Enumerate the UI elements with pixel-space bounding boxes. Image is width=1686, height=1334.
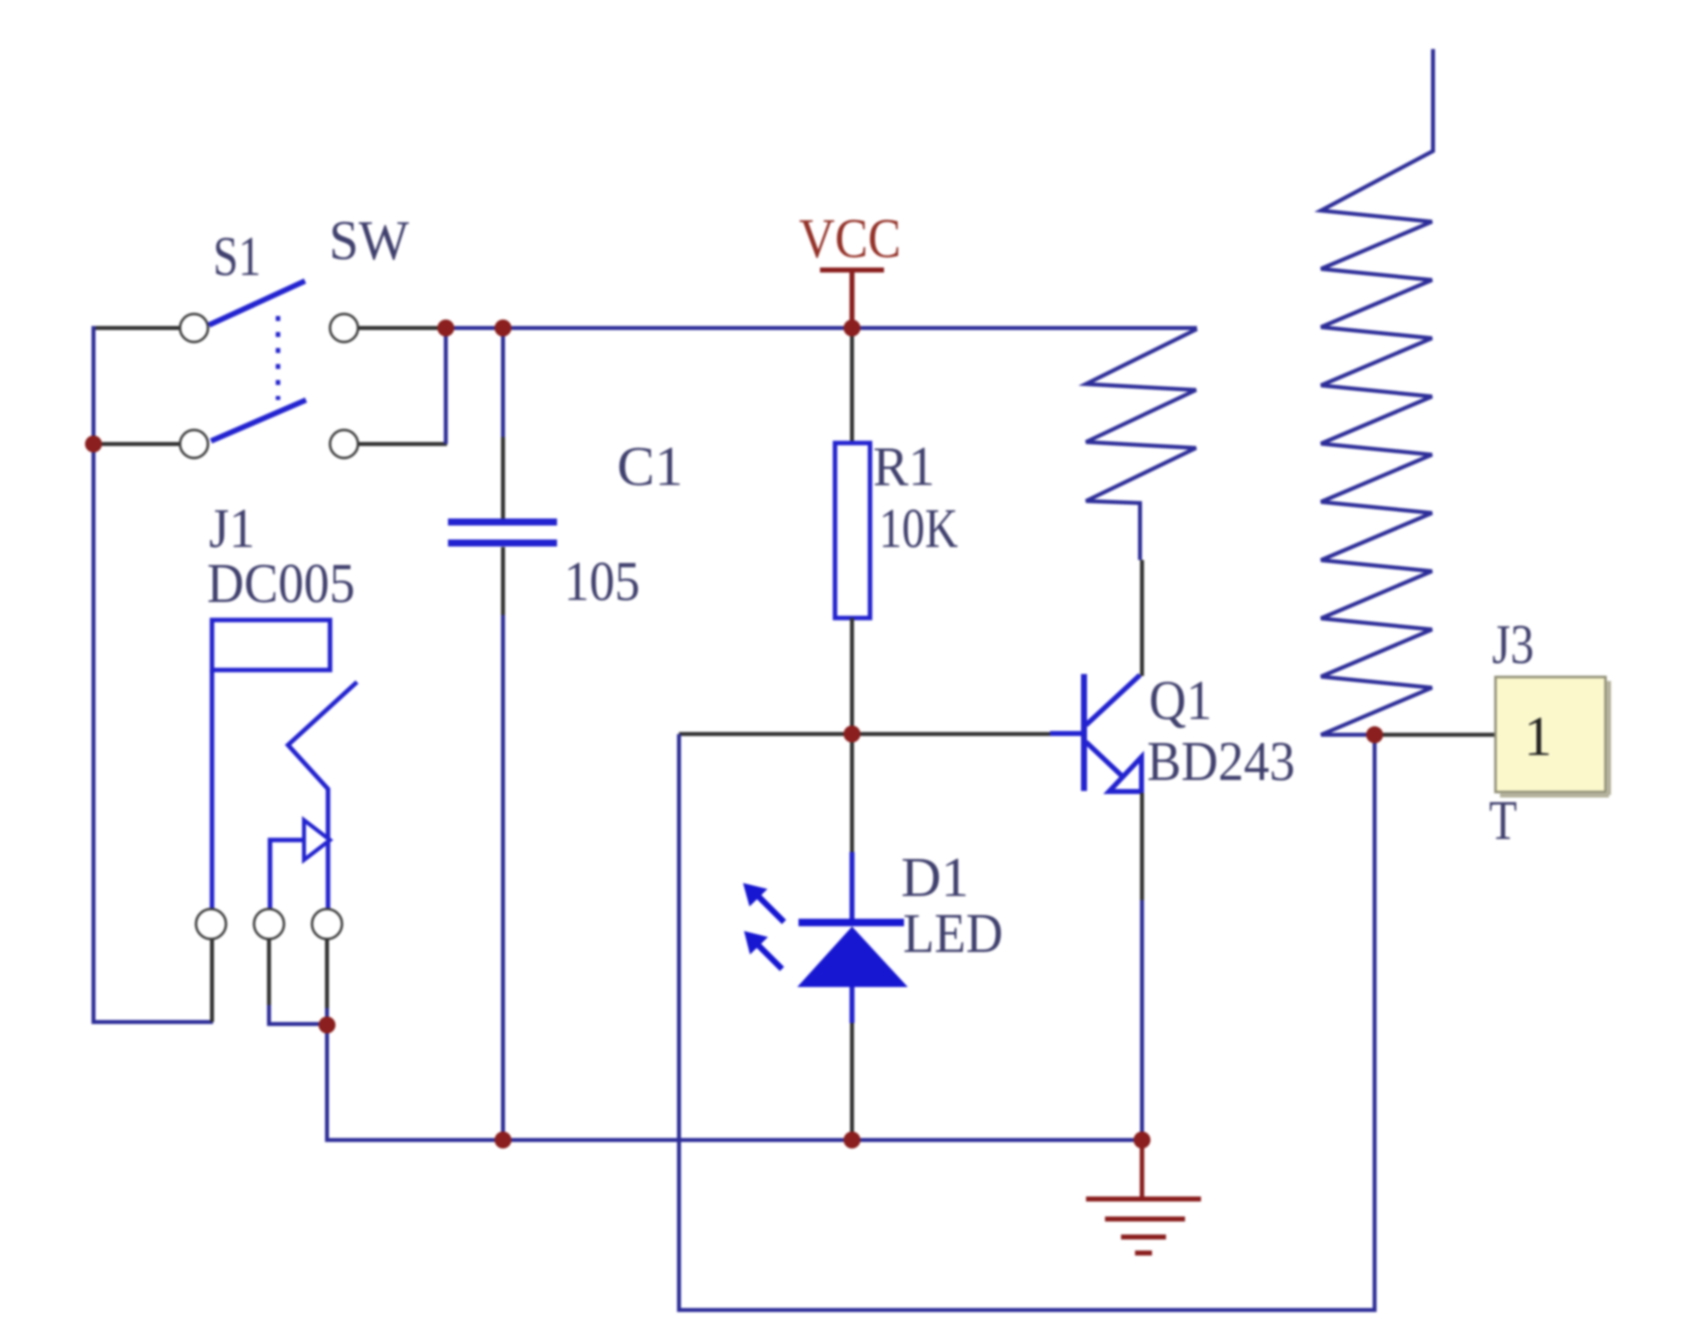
label C1 xyxy=(617,436,683,498)
wire: base node to LED xyxy=(850,734,854,919)
resistor R1 xyxy=(835,443,870,618)
svg-text:10K: 10K xyxy=(879,498,958,560)
wire: right vertical joining S1 contacts to rail xyxy=(444,328,448,444)
svg-text:R1: R1 xyxy=(873,436,935,498)
svg-text:LED: LED xyxy=(903,903,1003,965)
wire: S1 top-right lead to rail xyxy=(358,326,446,330)
switch S1 xyxy=(180,281,358,458)
wire: J1 middle pin xyxy=(269,939,327,1024)
svg-text:D1: D1 xyxy=(901,847,969,909)
connector J1 DC005 body xyxy=(212,620,357,909)
capacitor C1 xyxy=(448,522,557,543)
resistor R2 zigzag xyxy=(1086,329,1197,560)
svg-text:S1: S1 xyxy=(213,226,261,288)
wire: feedback box path xyxy=(679,734,1375,1310)
svg-text:DC005: DC005 xyxy=(207,553,355,615)
svg-text:105: 105 xyxy=(564,551,640,613)
wire: S1 bottom-right lead xyxy=(358,442,447,446)
wire: VCC to R1 xyxy=(850,328,854,443)
svg-text:1: 1 xyxy=(1524,706,1552,768)
wire: S1 bottom-left lead xyxy=(94,442,181,446)
wire: J1 right pin xyxy=(325,939,329,1025)
svg-text:J1: J1 xyxy=(209,498,255,560)
label S1 xyxy=(213,226,261,288)
resistor R3 heater zigzag xyxy=(1321,49,1433,735)
label BD243 xyxy=(1147,731,1295,793)
svg-text:VCC: VCC xyxy=(799,208,901,270)
wire: R1 bottom to base node xyxy=(850,618,854,734)
wire: S1 top-left lead xyxy=(94,326,181,330)
svg-text:SW: SW xyxy=(329,210,409,272)
svg-text:T: T xyxy=(1489,790,1517,852)
transistor Q1 BD243 xyxy=(1084,674,1142,792)
svg-text:Q1: Q1 xyxy=(1149,670,1212,732)
wire: heater bottom to J3 xyxy=(1375,733,1495,737)
wire: C1 bottom xyxy=(501,547,505,1140)
wire: DC jack left pin black xyxy=(210,938,214,1022)
label Q1 xyxy=(1149,670,1212,732)
wire: bottom ground rail xyxy=(327,1025,1142,1140)
node: junction dots xyxy=(85,320,1383,1149)
pins J1: three pads xyxy=(196,909,342,939)
wire: Q1 emitter down xyxy=(1140,793,1144,1140)
label 105 xyxy=(564,551,640,613)
ground xyxy=(1086,1140,1201,1253)
wire: R2 to Q1 collector xyxy=(1140,560,1144,676)
label R1 xyxy=(873,436,935,498)
wire: C1 top xyxy=(501,328,505,519)
label D1 xyxy=(901,847,969,909)
connector J3 port xyxy=(1496,677,1610,796)
wire: left net down to DC jack sleeve xyxy=(94,444,214,1022)
svg-text:J3: J3 xyxy=(1492,614,1534,676)
svg-text:BD243: BD243 xyxy=(1147,731,1295,793)
power VCC xyxy=(799,208,901,328)
label 10K xyxy=(879,498,958,560)
wire: top rail VCC net xyxy=(446,326,1197,330)
LED D1 xyxy=(743,883,906,986)
label J3 xyxy=(1492,614,1534,676)
wire: LED cathode down xyxy=(850,987,855,1140)
wire: base line xyxy=(679,732,1082,737)
svg-text:C1: C1 xyxy=(617,436,683,498)
label J1 xyxy=(209,498,255,560)
label T xyxy=(1489,790,1517,852)
label SW xyxy=(329,210,409,272)
label DC005 xyxy=(207,553,355,615)
label LED xyxy=(903,903,1003,965)
wire: left vertical S1 poles xyxy=(92,326,96,444)
